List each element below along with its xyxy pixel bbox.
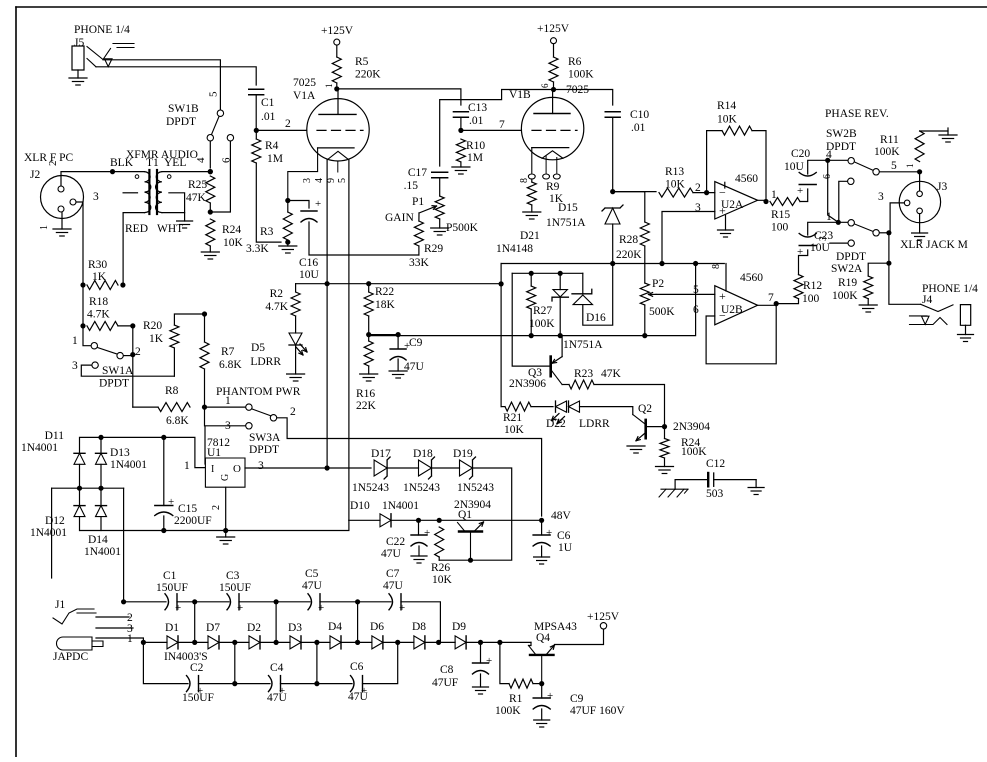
wire P1 wiper to R29 (418, 213, 420, 221)
wire to R19 (868, 263, 889, 276)
XLR jack J2 (41, 176, 84, 219)
svg-text:100K: 100K (495, 705, 521, 717)
svg-text:10K: 10K (717, 114, 738, 126)
wire C6b right (363, 642, 398, 683)
node x3 mid (232, 640, 237, 645)
regulator U1 (205, 458, 245, 487)
capacitor C9b (533, 697, 550, 699)
wire Q3 collector (562, 384, 569, 386)
wire SW3A-2 to 48V (277, 418, 542, 516)
svg-text:500K: 500K (649, 306, 675, 318)
wire C5-C7 (320, 601, 391, 603)
resistor R19 (864, 276, 873, 299)
svg-text:DPDT: DPDT (166, 116, 196, 128)
resistor R14 (722, 126, 752, 135)
wire C4-C6 (281, 683, 353, 685)
svg-text:+: + (547, 690, 553, 702)
wire J1 pin2 (96, 616, 129, 618)
node C15 bottom (161, 528, 166, 533)
resistor R8 (158, 403, 190, 412)
diode D9 (455, 636, 466, 649)
svg-text:R18: R18 (89, 296, 108, 308)
capacitor C3 (227, 594, 231, 610)
svg-text:C15: C15 (178, 503, 197, 515)
node R25 bottom (208, 209, 213, 214)
svg-text:R26: R26 (431, 562, 450, 574)
svg-text:2200UF: 2200UF (174, 515, 212, 527)
node x3 bot (232, 681, 237, 686)
wire R1 branch (500, 642, 509, 683)
ground J3 (919, 214, 921, 233)
svg-text:R14: R14 (717, 100, 736, 112)
LED D22 (555, 401, 557, 412)
wire C1b-C3 (177, 601, 229, 603)
U2B out wire (758, 304, 777, 306)
ground R11 (947, 128, 949, 135)
svg-text:1N5243: 1N5243 (457, 482, 494, 494)
svg-text:1N4001: 1N4001 (382, 500, 419, 512)
svg-text:V1A: V1A (293, 90, 316, 102)
wire T1 secondary bottom WHT (162, 212, 185, 214)
svg-text:1N4148: 1N4148 (496, 243, 533, 255)
wire bridge mid (79, 464, 81, 505)
svg-text:2: 2 (290, 406, 296, 418)
svg-text:.01: .01 (261, 111, 276, 123)
wire plate rail to C13 (337, 89, 461, 105)
capacitor C23 (799, 234, 816, 238)
diode D12 (74, 505, 85, 507)
node Q2 collector rail (662, 424, 667, 429)
resistor R12 (794, 275, 803, 299)
node R8 right (202, 405, 207, 410)
svg-text:220K: 220K (616, 249, 642, 261)
wire R28 to P2 (644, 246, 646, 283)
svg-text:C22: C22 (386, 536, 405, 548)
svg-text:1K: 1K (149, 333, 164, 345)
svg-text:R15: R15 (771, 209, 790, 221)
svg-text:47U: 47U (381, 548, 402, 560)
svg-text:+125V: +125V (587, 611, 620, 623)
node R22 bottom (366, 332, 371, 337)
node D11 mid (77, 486, 82, 491)
svg-text:6.8K: 6.8K (219, 359, 242, 371)
resistor R22 (364, 292, 373, 316)
node U2A inv (704, 190, 709, 195)
svg-text:150UF: 150UF (219, 582, 251, 594)
svg-text:+: + (399, 602, 405, 614)
resistor R1 (509, 679, 533, 688)
wire R27 leads (530, 273, 532, 286)
wire AC left col (51, 488, 53, 578)
zener D15 (605, 208, 620, 224)
svg-text:R9: R9 (546, 181, 560, 193)
wire D8-D9 (425, 641, 455, 643)
wire Q3 emitter (561, 336, 563, 357)
svg-text:+: + (197, 685, 203, 697)
resistor R30 (87, 281, 118, 290)
wire vref rail (501, 263, 724, 265)
svg-text:J2: J2 (30, 169, 40, 181)
node D16 top (558, 271, 563, 276)
XLR jack J3 (899, 181, 940, 222)
wire R12 to C23 (799, 250, 808, 275)
svg-text:1: 1 (225, 395, 231, 407)
wire D13 top (100, 437, 102, 453)
ground R24b (664, 458, 666, 467)
ground P1 (439, 219, 441, 228)
P1 wiper arrow (419, 206, 437, 213)
svg-text:C17: C17 (408, 167, 427, 179)
diode D11 (74, 452, 85, 454)
phone jack J5 (72, 46, 84, 70)
diode D2 (249, 636, 260, 649)
svg-text:4: 4 (314, 178, 325, 183)
svg-text:JAPDC: JAPDC (53, 651, 88, 663)
svg-text:5: 5 (337, 178, 348, 183)
svg-text:1M: 1M (267, 153, 283, 165)
node J3 pin1 (917, 169, 922, 174)
wire SW3A-3 to U1 (205, 426, 245, 464)
resistor R11 (915, 131, 924, 162)
svg-text:P1: P1 (412, 196, 424, 208)
diode D13 (96, 452, 107, 454)
svg-text:RED: RED (125, 223, 148, 235)
wire J2 pin3 down (76, 202, 83, 285)
svg-text:D5: D5 (251, 342, 265, 354)
capacitor C17 (432, 171, 448, 173)
wire R14 loop (707, 131, 722, 193)
resistor R21 (505, 402, 531, 411)
svg-text:1U: 1U (558, 542, 573, 554)
wire R21 to D22 (531, 406, 553, 408)
node R30 right (120, 282, 125, 287)
wire C7 right (401, 602, 440, 643)
svg-text:C3: C3 (226, 570, 240, 582)
diode D10 (380, 514, 391, 527)
switch SW1A (91, 343, 97, 349)
wire C3-C5 (239, 601, 310, 603)
svg-text:Q4: Q4 (536, 632, 550, 644)
svg-text:100K: 100K (568, 69, 594, 81)
ground D5 (295, 345, 297, 374)
svg-text:C10: C10 (630, 109, 649, 121)
svg-text:SW3A: SW3A (249, 432, 281, 444)
node x7 mid (395, 640, 400, 645)
resistor R15 (770, 198, 800, 206)
svg-text:D1: D1 (165, 622, 179, 634)
wire D22 to Q2 (580, 407, 633, 415)
wire +125V to R6 (553, 44, 555, 57)
svg-text:3: 3 (258, 460, 264, 472)
svg-text:8: 8 (519, 178, 530, 183)
wire rail D1 (143, 641, 167, 643)
wire U2A out (758, 200, 766, 201)
wire R5 bottom (336, 83, 338, 89)
node R26 top (437, 518, 442, 523)
resistor R4 (252, 139, 261, 163)
svg-text:47UF: 47UF (432, 677, 458, 689)
node x5 mid (314, 640, 319, 645)
svg-text:SW2A: SW2A (831, 263, 863, 275)
svg-text:R28: R28 (619, 234, 638, 246)
wire R4 leads (255, 130, 257, 139)
wire R11 top (920, 130, 948, 132)
svg-text:2: 2 (47, 161, 59, 167)
wire R26 bottom (438, 557, 440, 560)
resistor R23 (569, 380, 594, 389)
potentiometer P2 (640, 283, 649, 305)
svg-text:DPDT: DPDT (99, 378, 129, 390)
ground J5 (77, 70, 79, 78)
transformer T1 (145, 172, 151, 213)
svg-text:.01: .01 (469, 115, 484, 127)
svg-text:503: 503 (706, 488, 724, 500)
wire R8 left (133, 406, 158, 408)
svg-text:48V: 48V (551, 510, 572, 522)
resistor R16 (364, 341, 373, 366)
svg-text:R2: R2 (270, 288, 284, 300)
svg-text:3: 3 (878, 191, 884, 203)
wire T1 primary bottom (123, 213, 144, 285)
svg-text:BLK: BLK (110, 157, 134, 169)
svg-text:D22: D22 (546, 418, 566, 430)
svg-text:R5: R5 (355, 56, 369, 68)
svg-text:D19: D19 (453, 448, 473, 460)
border frame (16, 6, 987, 8)
svg-text:+: + (797, 246, 803, 258)
svg-text:1: 1 (905, 164, 915, 169)
svg-text:C9: C9 (409, 337, 423, 349)
svg-text:U1: U1 (207, 447, 221, 459)
svg-text:D13: D13 (110, 447, 130, 459)
resistor R27 (527, 286, 536, 309)
svg-text:47U: 47U (383, 580, 404, 592)
svg-text:47UF 160V: 47UF 160V (570, 705, 625, 717)
node 48V (539, 518, 544, 523)
wire vref col down (500, 284, 502, 407)
svg-text:1N4001: 1N4001 (30, 527, 67, 539)
svg-text:7: 7 (768, 292, 774, 304)
svg-text:R22: R22 (375, 286, 394, 298)
resistor R3 (283, 212, 292, 240)
svg-text:R19: R19 (838, 277, 857, 289)
wire grid V1B (461, 129, 521, 131)
svg-text:XLR JACK M: XLR JACK M (900, 239, 968, 251)
svg-text:1: 1 (127, 633, 133, 645)
wire inner box left (512, 273, 551, 366)
svg-text:22K: 22K (356, 400, 377, 412)
svg-text:1: 1 (39, 225, 50, 230)
capacitor C12 (707, 473, 709, 486)
node U1 gnd (223, 528, 228, 533)
svg-text:D8: D8 (412, 621, 426, 633)
+125V terminal V1A (334, 39, 340, 45)
zener D19 (460, 460, 473, 476)
svg-text:100K: 100K (832, 290, 858, 302)
ground R19 (867, 299, 869, 305)
wire C1 to grid (255, 95, 257, 130)
wire R10 bottom (460, 162, 462, 167)
ground T1 WHT (177, 220, 193, 222)
wire J2 pin2 to T1 (61, 172, 113, 186)
wire SW2B to R11 (880, 171, 920, 173)
svg-text:C12: C12 (706, 458, 725, 470)
node x6 mid (355, 640, 360, 645)
wire heater pin5 down (348, 160, 350, 520)
diode D8 (414, 636, 425, 649)
svg-text:100: 100 (771, 222, 789, 234)
wire D15 bottom (612, 224, 614, 264)
svg-text:3.3K: 3.3K (246, 243, 269, 255)
svg-text:R23: R23 (574, 368, 593, 380)
svg-text:5: 5 (208, 91, 220, 97)
svg-text:.01: .01 (631, 122, 646, 134)
svg-text:1N4001: 1N4001 (110, 459, 147, 471)
wire C6 leads (541, 520, 543, 535)
node x5 bot (314, 681, 319, 686)
wire J5 tip to SW1B (103, 60, 220, 110)
resistor R9 (527, 182, 536, 205)
resistor R6 (549, 57, 558, 82)
node V1A grid (254, 128, 259, 133)
tube V1B (521, 97, 583, 159)
svg-text:C6: C6 (557, 530, 571, 542)
svg-text:D7: D7 (206, 622, 220, 634)
node diode rail start (141, 640, 146, 645)
wire x2 vert (194, 602, 196, 643)
P2 wiper arrow (649, 293, 657, 295)
node x6 top (355, 599, 360, 604)
wire P2 wiper (656, 293, 715, 295)
capacitor C9a (390, 348, 406, 350)
node U2B out (774, 301, 779, 306)
node C13 bottom (458, 128, 463, 133)
svg-text:+: + (318, 602, 324, 614)
svg-text:6: 6 (540, 83, 550, 88)
node D15 top (610, 189, 615, 194)
svg-text:R21: R21 (503, 412, 522, 424)
svg-text:C8: C8 (440, 664, 454, 676)
wire +125V to R5 (336, 45, 338, 57)
zener D17 (374, 460, 387, 476)
svg-text:+: + (237, 602, 243, 614)
svg-text:1M: 1M (467, 152, 483, 164)
wire inner box top (512, 272, 583, 274)
svg-text:4560: 4560 (735, 173, 758, 185)
svg-text:J1: J1 (55, 599, 65, 611)
svg-text:C2: C2 (190, 662, 204, 674)
svg-text:100K: 100K (874, 146, 900, 158)
wire cathode rail (296, 283, 502, 285)
svg-text:D6: D6 (370, 621, 384, 633)
node U2A out (763, 199, 768, 204)
ground C22 (411, 555, 427, 557)
resistor R10 (456, 139, 465, 162)
svg-text:R24: R24 (222, 224, 241, 236)
wire bridge bottoms (79, 517, 81, 531)
svg-text:R6: R6 (568, 56, 582, 68)
wire D19 to Q1 base (439, 468, 512, 560)
svg-text:10U: 10U (810, 242, 831, 254)
wire vref corner (500, 264, 502, 284)
resistor R5 (332, 57, 341, 83)
wire R9 top (531, 179, 533, 182)
wire R7 leads (204, 314, 206, 342)
svg-text:SW1B: SW1B (168, 103, 199, 115)
wire x6 vert (357, 602, 359, 643)
U2B pin8 wire (725, 264, 727, 292)
node U2A pin3 rail (659, 261, 664, 266)
wire C2 left (143, 642, 188, 683)
wire C16 top (288, 201, 309, 209)
ground Q2 (627, 445, 645, 447)
svg-text:.15: .15 (404, 180, 419, 192)
svg-text:R1: R1 (509, 693, 523, 705)
wire C16 bottom (309, 222, 419, 255)
U2B inv wire (706, 304, 776, 364)
wire R20 bottom (173, 348, 175, 376)
wire plate node to R13 (613, 191, 656, 193)
wire R24b top (664, 427, 666, 439)
resistor R25 (206, 176, 215, 203)
wire zener rail (369, 264, 696, 336)
svg-text:R10: R10 (466, 140, 485, 152)
wire U2B out to R12 (776, 299, 798, 304)
svg-text:7025: 7025 (566, 84, 589, 96)
switch SW3A (246, 404, 252, 410)
wire T1 primary tap RED (123, 192, 137, 194)
svg-text:1: 1 (184, 460, 190, 472)
diode D4 (330, 636, 341, 649)
svg-text:U2A: U2A (721, 199, 744, 211)
svg-text:47U: 47U (302, 580, 323, 592)
node R18 right (130, 323, 135, 328)
svg-text:D4: D4 (328, 621, 342, 633)
wire SW1B-4 down (209, 141, 211, 168)
svg-text:+: + (279, 685, 285, 697)
svg-text:D3: D3 (288, 622, 302, 634)
wire mid rail (52, 487, 124, 489)
svg-text:2N3904: 2N3904 (673, 421, 710, 433)
node R25 top (208, 169, 213, 174)
svg-text:R13: R13 (665, 166, 684, 178)
wire R8 to SW3A (205, 406, 246, 408)
node SW2A (886, 230, 891, 235)
wire D9 right (466, 641, 531, 643)
svg-text:3: 3 (93, 191, 99, 203)
wire J1 pin1 (96, 638, 143, 642)
capacitor C10 (605, 111, 620, 113)
wire V1B plate to C10 (554, 90, 613, 106)
svg-text:3: 3 (72, 360, 78, 372)
svg-text:2N3906: 2N3906 (509, 378, 546, 390)
svg-text:C4: C4 (270, 662, 284, 674)
capacitor C22 (411, 534, 427, 536)
svg-text:R7: R7 (221, 346, 235, 358)
svg-text:+125V: +125V (537, 23, 570, 35)
node C22 top (416, 518, 421, 523)
svg-text:4.7K: 4.7K (87, 309, 110, 321)
wire Q4 base rail (529, 642, 532, 645)
wire R6 bottom (553, 82, 555, 90)
transistor Q1 (459, 530, 482, 532)
wire T1 primary top (113, 171, 145, 173)
svg-text:C16: C16 (299, 257, 318, 269)
ground R10 (452, 166, 470, 168)
wire Q2 collector (646, 426, 665, 428)
node C1 rail left (121, 599, 126, 604)
svg-text:220K: 220K (355, 69, 381, 81)
